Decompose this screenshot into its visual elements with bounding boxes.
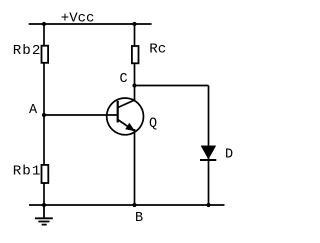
transistor Q1 circle <box>107 98 144 135</box>
svg-text:Rb1: Rb1 <box>13 164 42 180</box>
svg-text:Rc: Rc <box>149 42 166 58</box>
svg-text:+Vcc: +Vcc <box>61 11 95 27</box>
node B junction <box>132 203 136 207</box>
transistor Q1 base bar <box>117 101 119 123</box>
node A junction <box>42 113 46 117</box>
ground <box>35 205 53 225</box>
junction ground-left <box>42 203 46 207</box>
wire top +Vcc rail <box>29 23 152 25</box>
wire left vertical (Vcc to ground) <box>43 24 45 205</box>
resistor Rb2 <box>42 46 49 63</box>
node C junction <box>132 83 136 87</box>
resistor Rc <box>132 46 139 63</box>
svg-text:C: C <box>120 72 128 87</box>
wire base (node A to transistor) <box>44 114 118 116</box>
wire right vertical (diode branch) <box>208 86 210 206</box>
transistor Q1 emitter arrow <box>126 124 134 131</box>
junction Vcc-Rb2 <box>42 22 46 26</box>
wire node C horizontal <box>135 85 209 87</box>
svg-text:Rb2: Rb2 <box>13 43 42 59</box>
svg-text:A: A <box>29 103 38 118</box>
transistor Q1 collector lead <box>118 100 135 108</box>
diode D triangle <box>201 146 216 159</box>
diode D cathode bar <box>200 159 216 161</box>
svg-text:B: B <box>135 211 143 226</box>
wire emitter vertical <box>134 129 136 205</box>
wire bottom rail <box>29 204 225 206</box>
junction diode-bottom <box>206 203 210 207</box>
resistor Rb1 <box>42 165 49 183</box>
junction Vcc-Rc <box>132 22 136 26</box>
svg-text:Q: Q <box>149 117 157 132</box>
transistor Q1 emitter lead <box>118 120 135 132</box>
svg-text:D: D <box>225 148 233 163</box>
wire Rc branch vertical <box>134 24 136 100</box>
